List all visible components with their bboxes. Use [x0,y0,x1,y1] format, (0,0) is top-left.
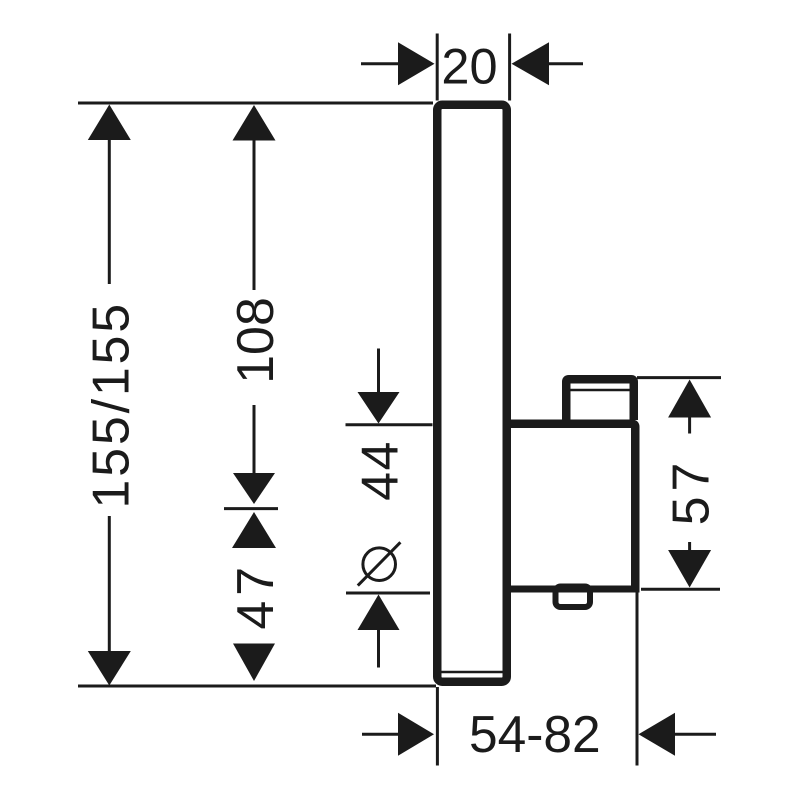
svg-text:54-82: 54-82 [469,705,601,763]
svg-text:44: 44 [352,440,410,501]
svg-text:108: 108 [227,297,285,384]
svg-text:57: 57 [663,458,721,526]
svg-text:155/155: 155/155 [82,301,140,509]
svg-text:20: 20 [441,38,497,95]
svg-text:47: 47 [227,562,285,630]
